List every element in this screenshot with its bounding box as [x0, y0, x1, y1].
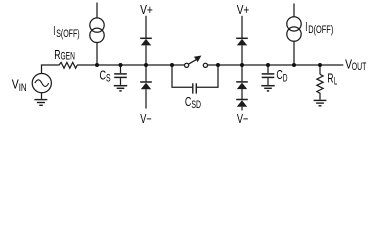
node CD junction [266, 63, 270, 67]
current source ID(OFF) [287, 17, 301, 31]
node right clamp junction [240, 63, 244, 67]
wire IS(OFF) top stub [96, 3, 98, 18]
wire D1 to node [145, 45, 147, 65]
wire V+ to D3 [241, 16, 243, 38]
switch S1 right contact [203, 63, 207, 67]
svg-text:GEN: GEN [61, 51, 75, 63]
svg-text:R: R [327, 72, 333, 86]
wire ID(OFF) top stub [293, 4, 295, 17]
wire IS(OFF) to node [96, 43, 98, 66]
svg-text:V+: V+ [140, 3, 153, 17]
wire switch to VOUT [208, 64, 344, 66]
diode D3 to V+ (right clamp) [236, 37, 248, 39]
ground (CD) [261, 86, 274, 91]
wire D2 to V- [145, 89, 147, 108]
wire ID(OFF) to node [293, 41, 295, 65]
node B (switch output) [216, 63, 220, 67]
svg-text:V−: V− [237, 112, 249, 126]
wire RGEN to switch [77, 64, 185, 66]
svg-text:D(OFF): D(OFF) [308, 24, 333, 36]
capacitor CS [114, 74, 127, 78]
wire node to D2 [145, 65, 147, 82]
wire CS to ground [120, 78, 122, 85]
node left clamp junction [144, 63, 148, 67]
wire node A to CSD [172, 65, 192, 87]
svg-text:S(OFF): S(OFF) [56, 28, 80, 40]
wire D4 to D5 [241, 89, 243, 99]
ground (RL) [314, 100, 327, 105]
current source IS(OFF) [90, 18, 104, 32]
wire D3 to node [241, 45, 243, 65]
svg-text:S: S [106, 73, 111, 85]
capacitor CSD [193, 83, 197, 93]
wire D5 to V- [241, 107, 243, 111]
resistor RGEN [59, 62, 77, 68]
svg-text:IN: IN [19, 82, 27, 94]
wire V+ to D1 [145, 16, 147, 38]
wire CD to ground [267, 78, 269, 85]
node CS junction [119, 63, 123, 67]
svg-text:OUT: OUT [352, 61, 367, 73]
wire node to CD [267, 65, 269, 73]
wire node to RL [319, 65, 321, 74]
svg-text:I: I [53, 24, 55, 38]
source VIN [32, 74, 51, 93]
capacitor CD [262, 74, 275, 78]
node ID(OFF) junction [292, 63, 296, 67]
node A (switch input) [170, 63, 174, 67]
resistor RL [317, 74, 323, 99]
switch S1 left contact [185, 63, 189, 67]
diode D1 to V+ (left clamp) [140, 37, 152, 39]
svg-text:L: L [334, 76, 337, 88]
diode D2 to V- (left clamp) [140, 81, 152, 83]
svg-text:V+: V+ [237, 3, 250, 17]
switch S1 lever arrow [189, 59, 197, 64]
wire node B to CSD [197, 65, 218, 87]
svg-text:V−: V− [140, 112, 151, 126]
diode D4 (right clamp upper of pair to V-) [236, 81, 248, 83]
wire node to CS [120, 65, 122, 73]
wire VIN to ground [41, 93, 43, 99]
svg-text:I: I [305, 20, 307, 34]
ground (VIN) [34, 100, 47, 106]
diode D5 (right clamp lower of pair to V-) [236, 99, 248, 101]
ground (CS) [114, 86, 127, 91]
node IS(OFF) junction [95, 63, 99, 67]
svg-text:SD: SD [191, 99, 201, 111]
node RL junction [318, 63, 322, 67]
wire node to D4 [241, 65, 243, 82]
wire main bus left segment [42, 65, 59, 74]
svg-text:D: D [283, 72, 288, 84]
